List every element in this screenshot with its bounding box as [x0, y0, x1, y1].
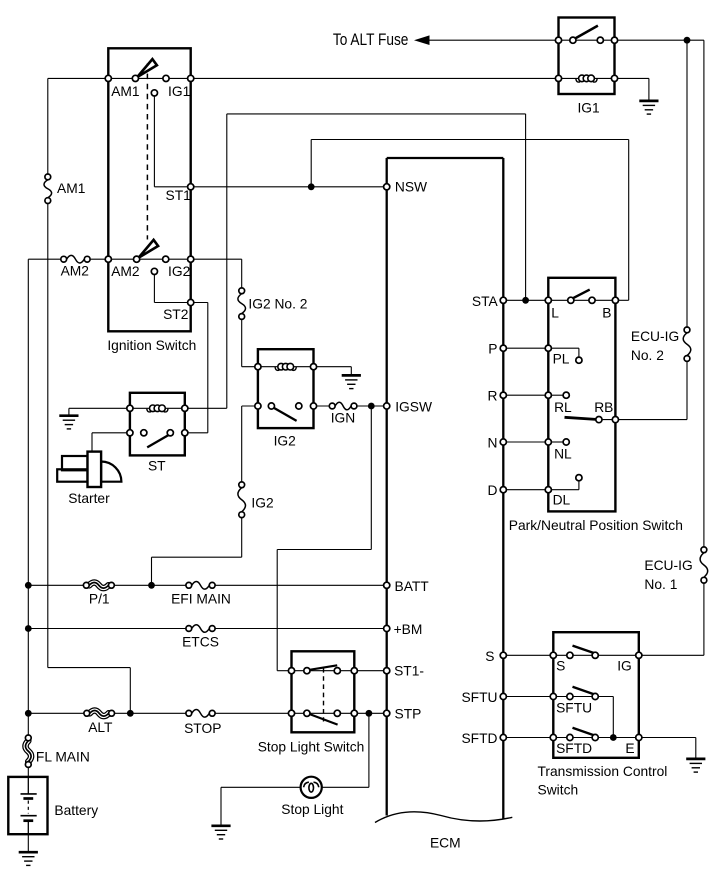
relay IG1 contact lever — [575, 26, 598, 39]
svg-text:SFTU: SFTU — [461, 690, 497, 705]
TCS SFTD row interior — [553, 737, 639, 739]
ground TCS E terminal — [686, 759, 705, 772]
fusible link FL MAIN — [26, 741, 32, 762]
svg-text:AM1: AM1 — [111, 84, 139, 99]
battery internal plates — [27, 777, 29, 794]
wire To-ALT-Fuse feed from IG1 relay contact — [427, 39, 559, 41]
TCS SFTU lever — [573, 687, 595, 695]
wire ECM R row — [503, 394, 548, 396]
svg-text:Stop Light Switch: Stop Light Switch — [258, 740, 365, 755]
ground IG1 relay — [639, 101, 658, 114]
svg-text:BATT: BATT — [395, 579, 430, 594]
svg-text:AM2: AM2 — [111, 264, 139, 279]
wire ETCS row — [28, 628, 189, 630]
svg-text:P: P — [488, 342, 497, 357]
wire AM1 terminal to AM1 fuse column — [48, 77, 109, 79]
relay IG2 box — [258, 349, 314, 428]
TCS SFTD lever — [573, 728, 595, 736]
wire right column ECU-IG No.1 to TCS IG — [703, 580, 705, 655]
wire AM1 fuse column vertical — [47, 78, 49, 176]
wire STP branch to stop light bulb — [368, 713, 370, 787]
wire IG2 relay contact feed column — [242, 405, 258, 407]
svg-text:ST: ST — [148, 459, 166, 474]
TCS S row interior — [553, 654, 595, 656]
svg-text:IG: IG — [617, 658, 632, 673]
transmission control switch box — [553, 632, 639, 758]
stop light switch lever bottom — [307, 713, 338, 725]
node IGSW junction — [368, 403, 375, 410]
svg-text:AM2: AM2 — [61, 263, 89, 278]
svg-text:STOP: STOP — [184, 721, 221, 736]
wire ECM D row — [503, 489, 548, 491]
stop light bulb — [301, 777, 322, 798]
park/neutral RB lever — [565, 417, 596, 419]
wire AM1 column jog to ALT junction — [48, 667, 131, 669]
svg-text:+BM: +BM — [394, 622, 423, 637]
ignition switch key lever 2 — [139, 240, 159, 258]
relay IG1 coil row interior wire — [559, 77, 615, 79]
svg-text:IG1: IG1 — [577, 101, 599, 116]
svg-text:L: L — [551, 306, 559, 321]
wire ST relay coil column vertical — [226, 114, 228, 408]
svg-text:ECU-IG: ECU-IG — [631, 329, 679, 344]
svg-text:SFTD: SFTD — [461, 731, 497, 746]
svg-text:ALT: ALT — [88, 720, 113, 735]
wire EFI MAIN row — [28, 584, 86, 586]
svg-text:Battery: Battery — [54, 803, 98, 818]
ignition switch terminals row1 AM1 IG1 — [105, 75, 111, 81]
wire ST relay coil to ground stem — [69, 407, 130, 409]
fuse ECU-IG No.1 — [700, 553, 708, 578]
node SFTD-E junction — [610, 734, 617, 741]
relay IG2 contact lever — [273, 407, 297, 421]
svg-text:No. 1: No. 1 — [644, 577, 677, 592]
svg-text:STA: STA — [472, 294, 499, 309]
svg-text:ECU-IG: ECU-IG — [644, 558, 692, 573]
svg-text:IG1: IG1 — [168, 84, 190, 99]
wire ST1 link inside ignition switch — [153, 96, 155, 187]
relay ST coil — [147, 409, 151, 412]
svg-text:FL MAIN: FL MAIN — [36, 750, 90, 765]
node STA junction — [522, 297, 529, 304]
svg-text:R: R — [488, 389, 498, 404]
svg-text:SFTD: SFTD — [556, 741, 592, 756]
node battery column ETCS junction — [25, 625, 32, 632]
wire ECU-IG No.2 to RB — [686, 359, 688, 420]
svg-text:IG2: IG2 — [251, 496, 273, 511]
wire AM2 row left — [28, 258, 63, 260]
wire ECU-IG No.2 branch vertical upper — [686, 40, 688, 330]
park/neutral STA lever — [572, 290, 590, 299]
wire IG2 relay contact to IGN fuse — [314, 405, 333, 407]
relay IG1 contact row — [559, 39, 615, 41]
stop light switch terminals — [288, 668, 294, 674]
ECM terminals left edge — [384, 184, 390, 190]
stop light switch interior rows — [292, 670, 355, 672]
svg-text:IGN: IGN — [331, 411, 356, 426]
fuse ETCS — [192, 625, 210, 633]
svg-text:ECM: ECM — [430, 836, 461, 851]
ground battery — [19, 852, 38, 865]
wire B column vertical to park/neutral B — [628, 140, 630, 301]
ground IG2 relay coil — [342, 375, 361, 388]
wire ST1 to ECM NSW — [191, 186, 387, 188]
fusible link EFI-ALT — [90, 711, 109, 717]
TCS terminals — [550, 652, 556, 658]
fusible link P/1 — [89, 583, 108, 589]
node battery column ALT junction — [25, 710, 32, 717]
svg-text:ETCS: ETCS — [182, 635, 219, 650]
ground ST relay coil — [59, 416, 78, 429]
svg-text:D: D — [488, 483, 498, 498]
node NSW-ST1 junction — [308, 183, 315, 190]
relay IG2 coil — [275, 367, 279, 370]
wire IG2 relay coil interior row — [258, 366, 314, 368]
node STP junction — [366, 710, 373, 717]
ignition switch mechanical link dashed — [146, 64, 148, 240]
svg-text:SFTU: SFTU — [556, 700, 592, 715]
TCS SFTU row interior — [553, 696, 595, 698]
node ALT-AM1 junction — [127, 710, 134, 717]
relay IG2 terminals — [255, 364, 261, 370]
wire IGSW branch down to stop light switch — [370, 406, 372, 550]
park/neutral terminals — [545, 297, 551, 303]
ECM terminals right edge — [500, 297, 506, 303]
svg-text:NSW: NSW — [395, 180, 427, 195]
wire ECM STA to park/neutral L — [503, 299, 548, 301]
svg-text:RB: RB — [594, 400, 613, 415]
battery box — [8, 777, 47, 834]
wire right column ECU-IG No.1 feed vertical upper — [703, 40, 705, 550]
wire STA column vertical — [525, 114, 527, 300]
fuse IGN — [335, 402, 351, 410]
wire node NSW-branch vertical — [310, 140, 312, 187]
svg-text:ST2: ST2 — [163, 307, 188, 322]
ignition switch contact row AM2-IG2 interior wire — [108, 258, 190, 260]
wire IG2 relay coil to ground stem — [314, 366, 352, 368]
fuse EFI MAIN — [192, 582, 210, 590]
relay ST contact lever — [147, 435, 169, 448]
park/neutral DL stub — [548, 489, 579, 491]
svg-text:PL: PL — [553, 351, 570, 366]
stop light switch box — [292, 651, 355, 732]
relay IG1 terminals — [555, 37, 561, 43]
svg-text:ST1: ST1 — [166, 188, 191, 203]
svg-text:EFI MAIN: EFI MAIN — [171, 591, 231, 606]
ground stop light — [211, 826, 230, 839]
park/neutral RL stub — [548, 394, 563, 396]
svg-text:IG2: IG2 — [168, 264, 190, 279]
wire ST2 link inside ignition switch — [153, 275, 155, 303]
svg-text:Starter: Starter — [68, 491, 110, 506]
wire IG2 fuse to EFI junction jog — [241, 515, 243, 558]
wire IG1 coil to ignition switch IG1 terminal — [191, 77, 559, 79]
ECM box with wavy bottom — [387, 157, 504, 159]
node top-right junction — [684, 37, 691, 44]
wire FL MAIN to battery — [27, 765, 29, 777]
TCS S lever — [573, 646, 595, 654]
wire ST relay coil to STA horizontal — [227, 113, 526, 115]
svg-text:Stop Light: Stop Light — [281, 802, 343, 817]
svg-text:P/1: P/1 — [89, 592, 110, 607]
wire ALT-STOP row — [28, 712, 87, 714]
svg-text:NL: NL — [554, 447, 572, 462]
ignition switch key lever 1 — [137, 59, 157, 77]
park/neutral position switch box — [548, 278, 615, 512]
svg-text:STP: STP — [395, 707, 422, 722]
stop light switch lever top — [307, 665, 337, 670]
wire ECM SFTU row to TCS — [503, 696, 553, 698]
node EFI MAIN junction — [148, 582, 155, 589]
wire ST relay contact to starter — [92, 432, 130, 434]
wire ST2 to ST relay contact — [191, 302, 208, 304]
svg-text:IGSW: IGSW — [395, 400, 432, 415]
fuse STOP — [192, 710, 210, 718]
relay ST coil row interior wire — [130, 407, 185, 409]
wire IG2 No.2 fuse to IG2 relay coil — [241, 317, 243, 367]
svg-text:S: S — [485, 649, 494, 664]
wire ECM S row to TCS — [503, 654, 553, 656]
wire battery main column vertical — [27, 259, 29, 738]
svg-text:Transmission Control: Transmission Control — [538, 764, 668, 779]
relay IG1 box — [559, 18, 615, 95]
svg-text:Park/Neutral Position Switch: Park/Neutral Position Switch — [509, 518, 683, 533]
wire stop light switch to ECM ST1- — [354, 670, 386, 672]
arrow to ALT fuse — [414, 35, 430, 45]
fuse IG2 No.2 — [238, 294, 246, 314]
park/neutral PL stub — [548, 347, 579, 349]
relay IG1 coil — [576, 79, 580, 82]
wire ECM P row — [503, 347, 548, 349]
svg-text:Ignition Switch: Ignition Switch — [107, 338, 196, 353]
svg-text:Switch: Switch — [538, 782, 579, 797]
ignition switch box — [108, 48, 190, 331]
ignition switch terminals row2 AM2 IG2 ST2 — [105, 256, 111, 262]
wire IG1 relay contact to top-right corner — [615, 39, 704, 41]
svg-text:S: S — [556, 658, 565, 673]
wire TCS E to ground stem — [639, 737, 696, 739]
wire IGN fuse to ECM IGSW — [354, 405, 387, 407]
starter motor drawing — [62, 456, 88, 470]
park/neutral STA row interior — [548, 299, 615, 301]
svg-text:B: B — [602, 306, 611, 321]
relay ST terminals — [127, 405, 133, 411]
svg-text:AM1: AM1 — [57, 181, 85, 196]
svg-text:ST1-: ST1- — [394, 664, 424, 679]
wire battery to ground stem — [27, 834, 29, 852]
svg-text:No. 2: No. 2 — [631, 348, 664, 363]
fuse ECU-IG No.2 — [683, 333, 691, 356]
wire ECM N row — [503, 441, 548, 443]
svg-text:IG2: IG2 — [274, 434, 296, 449]
ignition switch contact row AM1-IG1 interior wire — [108, 77, 190, 79]
wire IG1 relay coil to ground stem — [615, 77, 649, 79]
wire stop light bulb to ground — [221, 786, 301, 788]
node battery column EFI junction — [25, 582, 32, 589]
wire SFTU contact to SFTD junction — [595, 696, 613, 698]
fuse AM1 — [44, 180, 52, 198]
park/neutral NL stub — [548, 441, 563, 443]
wire IG2 terminal to IG2 No.2 fuse — [191, 258, 242, 260]
wire stop light switch to ECM STP — [354, 712, 386, 714]
svg-text:IG2 No. 2: IG2 No. 2 — [248, 297, 307, 312]
stop light switch link dashed — [323, 668, 325, 722]
wire ECM SFTD row to TCS — [503, 737, 553, 739]
svg-text:DL: DL — [553, 492, 571, 507]
fuse IG2 — [238, 488, 246, 512]
svg-text:N: N — [488, 436, 498, 451]
svg-text:E: E — [625, 741, 634, 756]
fuse AM2 — [67, 255, 85, 263]
svg-text:To ALT Fuse: To ALT Fuse — [333, 31, 409, 49]
relay ST box — [130, 393, 185, 456]
wire NSW branch horizontal to B column — [311, 139, 629, 141]
svg-text:RL: RL — [554, 400, 572, 415]
